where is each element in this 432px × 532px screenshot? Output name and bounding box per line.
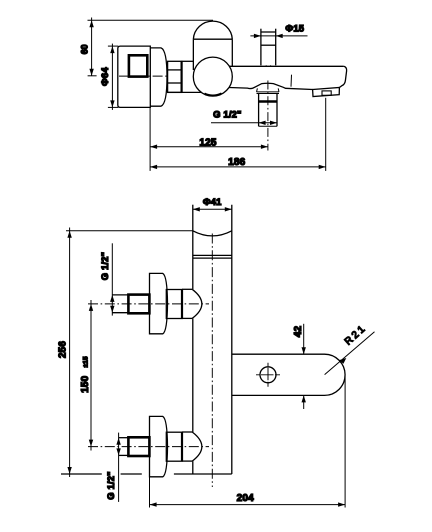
lower inlet centreline <box>88 446 209 448</box>
dim 150 line <box>90 300 92 451</box>
dim G1/2 leader line (view1) <box>211 122 277 124</box>
column joint band line 2 <box>193 257 232 259</box>
dim Phi15 arrow left <box>254 34 261 38</box>
connector stack inner line 1 <box>168 69 182 71</box>
upper inlet hex (bold) <box>128 295 149 314</box>
svg-text:G 1/2": G 1/2" <box>213 109 242 120</box>
dim 125 arrow left <box>150 145 157 149</box>
upper inlet connector <box>166 290 182 319</box>
upper inlet nipple bottom <box>112 312 128 314</box>
dim 204 arrow left <box>150 502 157 506</box>
diverter knob left edge <box>260 29 262 66</box>
valve body (side) <box>150 48 167 106</box>
dim Phi64 line <box>111 44 113 110</box>
handle dome <box>193 21 232 39</box>
svg-text:R21: R21 <box>343 323 369 348</box>
diverter knob joint <box>261 44 276 46</box>
column top concave cap <box>193 231 232 236</box>
dim Phi64 arrow down <box>110 100 114 107</box>
dim 256 top extension <box>66 230 193 232</box>
column bottom <box>174 473 232 475</box>
spout contour line <box>290 75 293 87</box>
dim G1/2 lower arrow bottom <box>116 448 120 455</box>
dim Phi15 line <box>250 35 307 37</box>
dim G1/2 upper arrow bottom <box>110 306 114 313</box>
handle cylinder right side <box>231 39 233 66</box>
aerator inner <box>322 91 331 95</box>
spout underside <box>229 83 312 89</box>
lower inlet ball joint top edge <box>182 431 192 433</box>
dim 60 line <box>91 18 93 76</box>
aerator body <box>313 88 340 97</box>
dim G1/2 upper arrow top <box>110 295 114 302</box>
dim R21 leader <box>325 332 375 375</box>
lower inlet nipple top <box>119 437 129 439</box>
dim R21 arrow <box>339 358 346 364</box>
dim 60 arrow up <box>89 20 93 27</box>
svg-text:Φ64: Φ64 <box>99 67 110 86</box>
upper inlet nipple top <box>112 294 128 296</box>
svg-text:Φ41: Φ41 <box>203 196 222 207</box>
wall bracket square (bold) <box>129 55 147 76</box>
dim 256 line <box>69 228 71 478</box>
ext line aerator centre <box>325 98 327 171</box>
svg-text:125: 125 <box>199 138 217 149</box>
spout right end <box>339 66 346 87</box>
diverter collar right side <box>277 88 280 92</box>
spout arm bottom edge <box>232 394 325 396</box>
connector right edge (bold) <box>181 61 183 92</box>
upper inlet flange disc <box>150 273 168 333</box>
lower inlet nipple bottom <box>119 454 129 456</box>
main centreline <box>119 75 169 77</box>
outlet crosshair horizontal <box>256 374 280 376</box>
upper inlet ball joint arc <box>192 289 202 318</box>
dim 42 line lower segment <box>303 395 305 409</box>
dim Phi15 arrow right <box>276 34 283 38</box>
dim G1/2 upper line <box>111 243 113 315</box>
dim Phi64 arrow up <box>110 46 114 53</box>
svg-text:Φ15: Φ15 <box>285 22 304 33</box>
dim 125 line <box>150 146 268 148</box>
dim 204 arrow right <box>338 502 345 506</box>
lower inlet ball joint arc <box>192 432 202 461</box>
dim G1/2 lower arrow top <box>116 438 120 445</box>
dim 186 arrow right <box>319 165 326 169</box>
dim 256 arrow bottom <box>67 467 71 474</box>
connector stack <box>168 61 182 92</box>
diverter knob foot left <box>265 65 267 66</box>
upper inlet ball joint top edge <box>182 288 192 290</box>
diverter knob foot right <box>270 65 272 66</box>
dim 186 line <box>150 166 326 168</box>
svg-text:G 1/2": G 1/2" <box>105 471 116 500</box>
dim 60 tick at centreline <box>88 75 97 77</box>
column left edge lower <box>192 461 194 474</box>
dim 60 arrow down <box>89 69 93 76</box>
svg-text:±15: ±15 <box>82 356 89 367</box>
dim 60 extension line to dome apex <box>88 19 214 21</box>
upper inlet centreline <box>88 303 209 305</box>
dim Phi64 extension bottom <box>108 106 118 108</box>
dim Phi41 line <box>193 208 232 210</box>
ext line arm end <box>344 377 346 508</box>
spout pipe centreline <box>267 81 269 151</box>
column bottom <box>61 473 102 475</box>
lower inlet connector <box>166 432 182 461</box>
diverter collar left side <box>256 88 259 92</box>
spout pipe thread band (bold) <box>259 100 277 103</box>
lower inlet ball joint bottom edge <box>182 460 192 462</box>
spout pipe bottom <box>259 125 277 127</box>
cartridge housing top edge <box>182 60 194 62</box>
dim Phi41 arrow left <box>193 207 200 211</box>
svg-text:204: 204 <box>237 493 255 504</box>
dim 186 arrow left <box>150 165 157 169</box>
spout arm top edge <box>232 353 325 355</box>
cartridge housing bottom edge <box>168 91 202 93</box>
dim 42 arrow top <box>302 347 306 354</box>
diverter knob right edge <box>275 29 277 66</box>
ext line wall face (view1) <box>149 107 151 170</box>
lower inlet connector right edge (bold) <box>181 432 183 461</box>
column left edge middle <box>192 318 194 432</box>
svg-text:G 1/2": G 1/2" <box>99 252 110 281</box>
svg-text:150: 150 <box>80 375 91 393</box>
dim 204 line <box>150 504 346 506</box>
diverter collar line 2 <box>257 93 280 95</box>
dim 150 arrow bottom <box>89 440 93 447</box>
dim 256 arrow top <box>67 231 71 238</box>
upper inlet ball joint bottom edge <box>182 317 192 319</box>
dim Phi64 extension top <box>108 45 118 47</box>
ext line flange face lower <box>149 477 151 508</box>
wall flange (side) <box>118 46 151 107</box>
svg-text:60: 60 <box>80 44 90 54</box>
svg-text:186: 186 <box>228 157 246 168</box>
diverter knob top <box>261 31 276 33</box>
outlet crosshair vertical <box>267 363 269 387</box>
dim Phi41 arrow right <box>225 207 232 211</box>
column right edge <box>231 205 233 474</box>
dim 42 arrow bottom <box>302 395 306 402</box>
dim G1/2 arrow left (view1) <box>259 121 266 125</box>
column centreline <box>211 234 213 488</box>
connector stack inner line 2 <box>168 82 182 84</box>
spout pipe left wall <box>258 93 260 126</box>
dim 150 arrow top <box>89 304 93 311</box>
dim G1/2 lower line <box>118 433 120 502</box>
handle dome base line <box>193 38 232 40</box>
column bottom right part <box>121 473 142 475</box>
column joint band line 1 <box>193 254 232 256</box>
spout arm rounded end R21 <box>325 354 346 395</box>
svg-text:42: 42 <box>293 326 304 338</box>
upper inlet connector right edge (bold) <box>181 289 183 318</box>
lower inlet hex (bold) <box>128 437 149 456</box>
body circle bottom emphasis <box>205 93 222 95</box>
lower inlet flange disc <box>150 416 168 476</box>
dim G1/2 arrow right (view1) <box>270 121 277 125</box>
body circle <box>193 57 232 96</box>
column left edge upper <box>192 205 194 290</box>
spout pipe right wall <box>276 93 278 126</box>
dim 42 line upper segment <box>303 324 305 354</box>
diverter collar line 1 <box>257 91 280 93</box>
dim 125 arrow right <box>261 145 268 149</box>
outlet circle <box>260 367 276 383</box>
spout top edge <box>230 65 344 67</box>
svg-text:256: 256 <box>57 341 68 359</box>
handle cylinder left side <box>192 39 194 70</box>
